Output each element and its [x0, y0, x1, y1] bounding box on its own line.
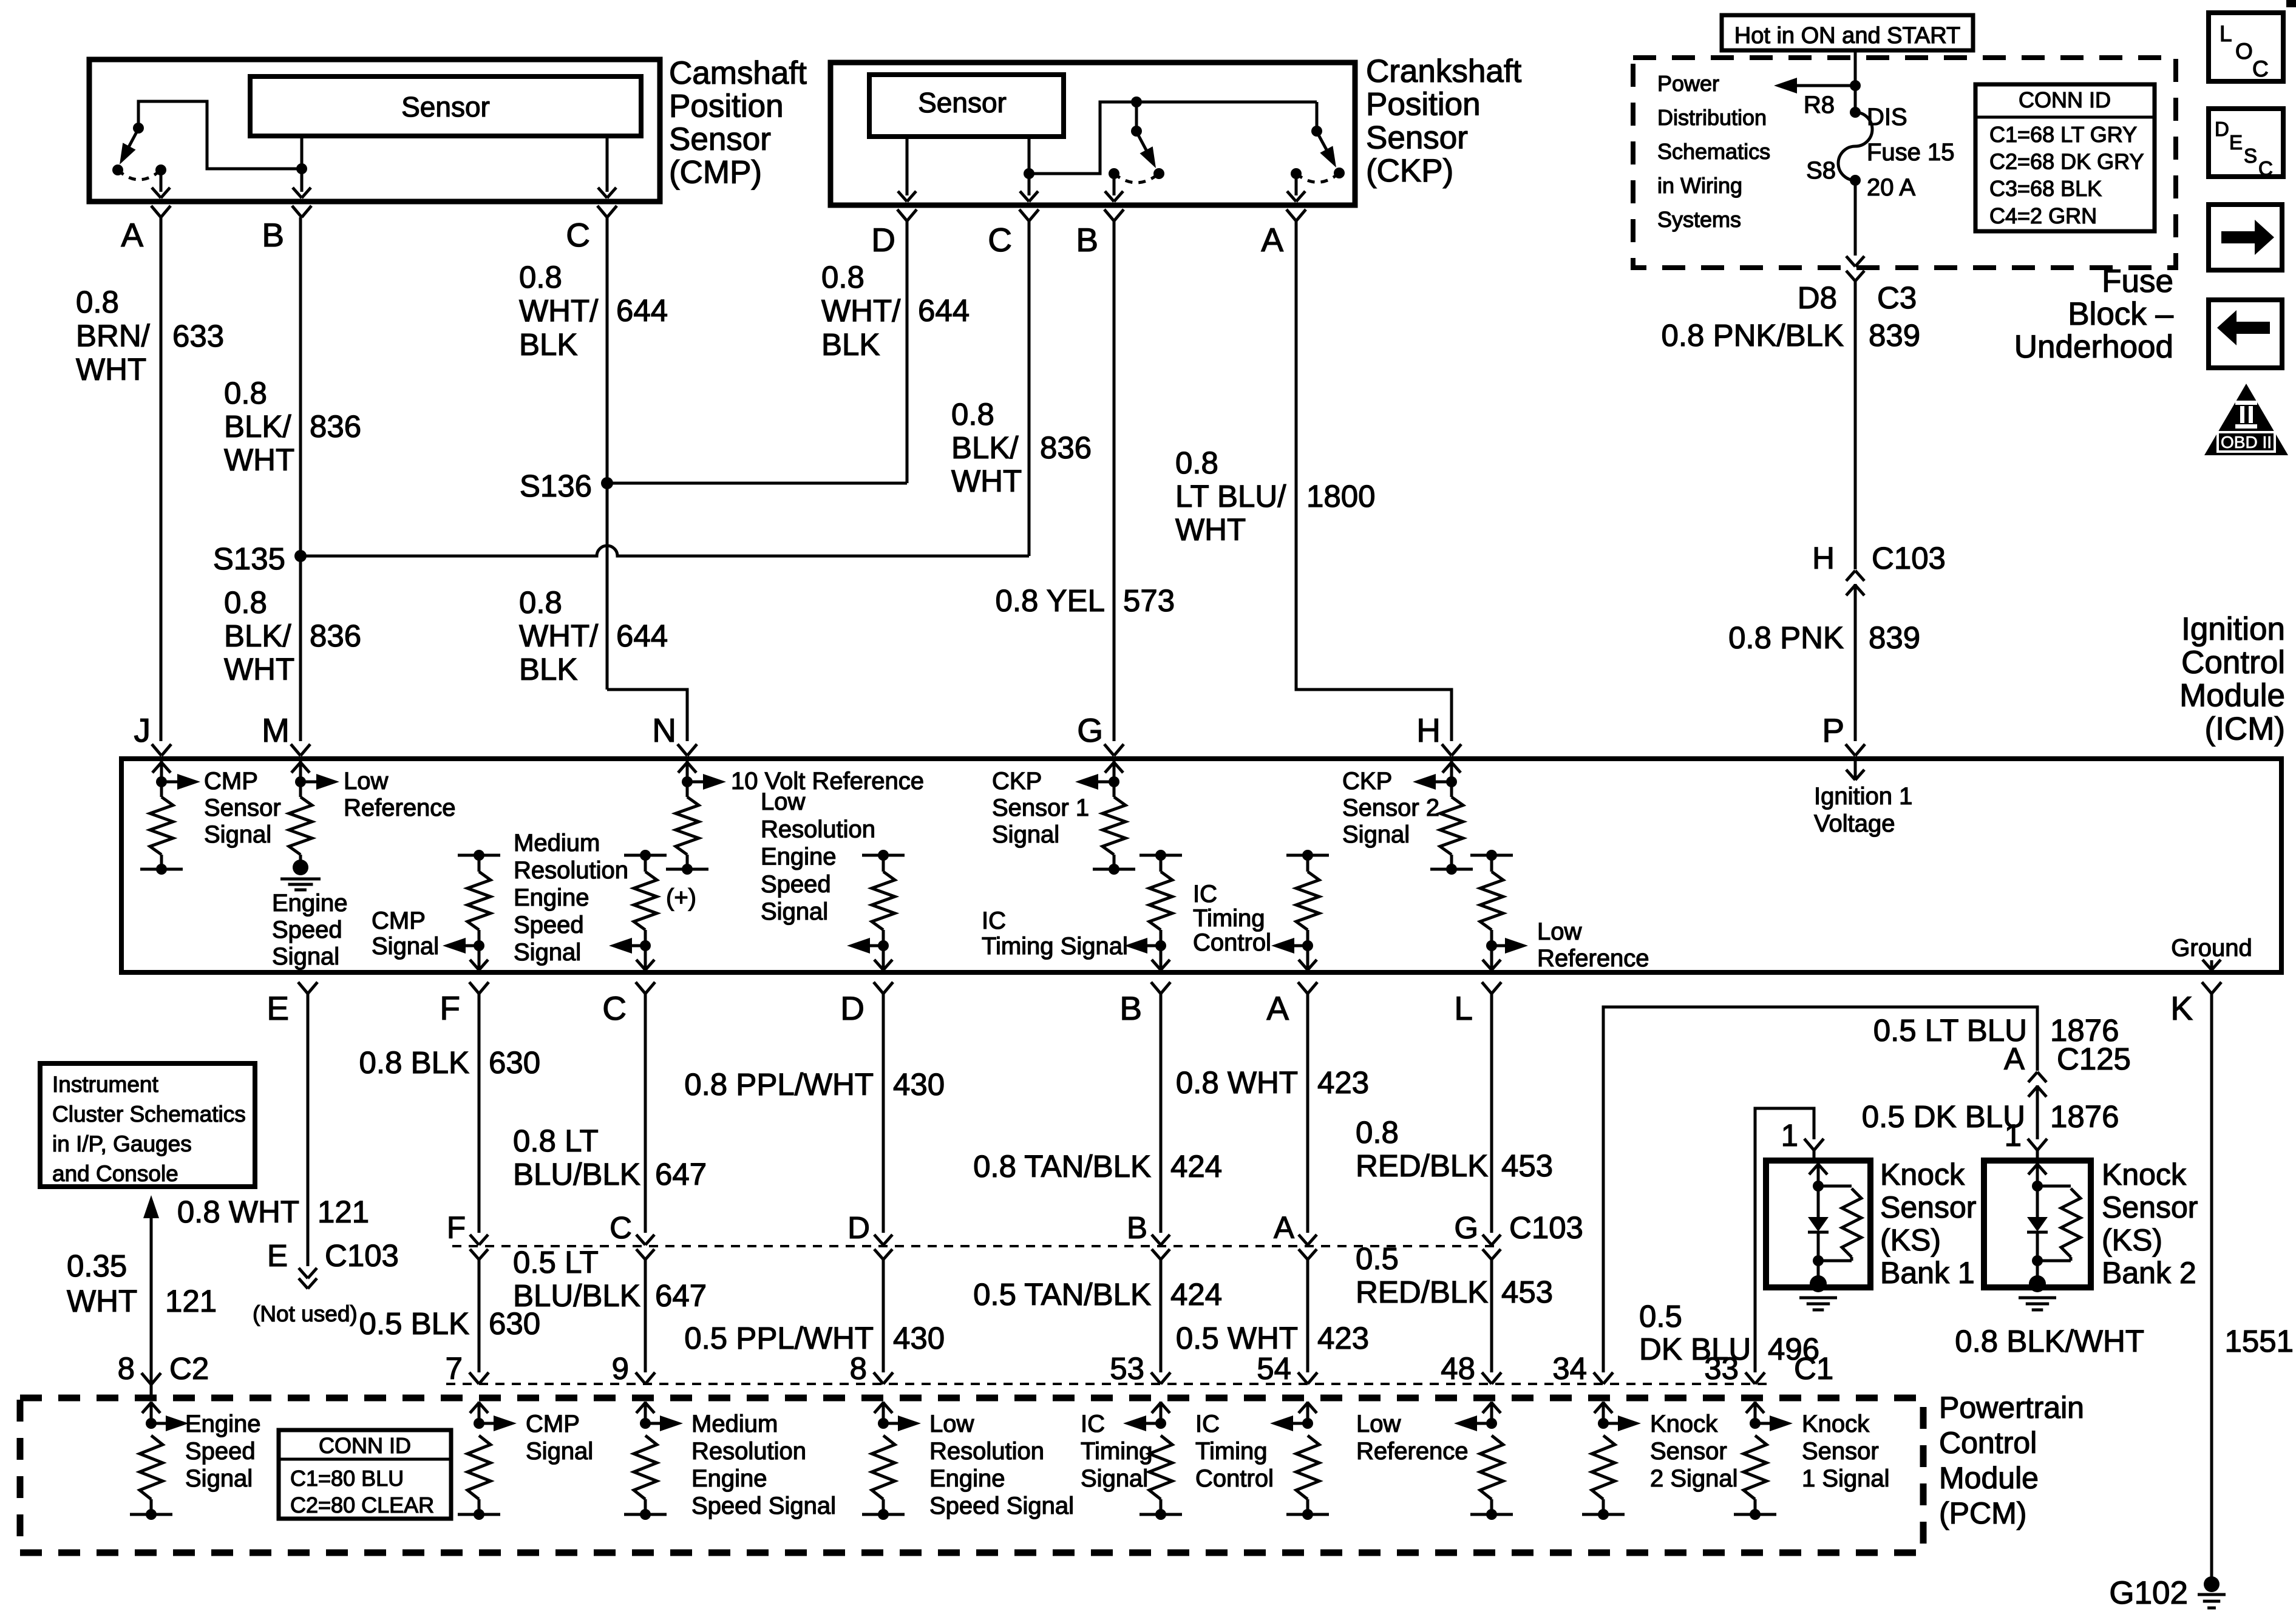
svg-text:Signal: Signal [1342, 821, 1410, 848]
wire CKP D down to S136 line [906, 221, 909, 483]
CKP pin B connector [1104, 209, 1114, 221]
svg-text:0.8: 0.8 [224, 376, 267, 410]
svg-text:630: 630 [489, 1045, 540, 1080]
svg-text:Control: Control [1193, 929, 1271, 956]
svg-text:0.8 PNK: 0.8 PNK [1728, 620, 1844, 655]
svg-text:Knock: Knock [1802, 1411, 1870, 1437]
svg-text:Sensor 2: Sensor 2 [1342, 795, 1439, 821]
svg-text:Low: Low [1356, 1411, 1401, 1437]
wire ICM F to C103 [478, 994, 481, 1233]
svg-text:647: 647 [655, 1278, 707, 1313]
ICM internal resistor top stub [1140, 854, 1182, 857]
wire ICM D to C103 [882, 994, 885, 1233]
svg-text:WHT: WHT [67, 1284, 137, 1318]
CMP pin C connector [597, 206, 607, 217]
ICM internal node dot [156, 776, 167, 787]
svg-text:644: 644 [616, 293, 668, 328]
wire C103 to PCM pin 8 [882, 1259, 885, 1372]
svg-text:C: C [2252, 56, 2269, 81]
svg-text:1800: 1800 [1306, 479, 1375, 514]
svg-text:WHT/: WHT/ [519, 619, 599, 653]
PCM pin 33 connector [1745, 1372, 1755, 1384]
svg-text:Speed: Speed [761, 871, 831, 898]
splice line S136 to CKP D [607, 482, 907, 485]
svg-text:Schematics: Schematics [1657, 139, 1770, 164]
svg-text:Signal: Signal [185, 1465, 253, 1492]
svg-text:430: 430 [893, 1067, 945, 1102]
svg-text:836: 836 [310, 409, 361, 444]
branch arrow to power distribution schematics [1797, 84, 1855, 87]
svg-text:S8: S8 [1806, 157, 1836, 184]
svg-text:S136: S136 [520, 469, 592, 503]
CKP pin D internal wire with arrow [906, 137, 909, 195]
svg-text:Sensor: Sensor [2102, 1190, 2198, 1224]
knock sensor bank 2 bottom node dot [2032, 1255, 2043, 1266]
svg-text:Sensor: Sensor [1650, 1438, 1727, 1465]
CKP switch 1 fixed contact dot (pin B) [1109, 168, 1119, 179]
ICM internal ground [293, 859, 308, 875]
svg-text:0.5: 0.5 [1356, 1241, 1399, 1276]
PCM node dot [146, 1418, 157, 1429]
svg-text:Speed: Speed [272, 917, 342, 943]
knock sensor bank 2 internal resistor [2037, 1185, 2071, 1188]
svg-text:0.8: 0.8 [1356, 1115, 1399, 1150]
svg-text:IC: IC [1081, 1411, 1105, 1437]
svg-text:Reference: Reference [344, 795, 456, 821]
ICM signal arrow right [301, 781, 325, 784]
svg-text:839: 839 [1869, 620, 1920, 655]
knock sensor bank 2 top node dot [2032, 1181, 2043, 1192]
PCM pin 8 connector [874, 1372, 883, 1384]
svg-text:Speed Signal: Speed Signal [691, 1493, 836, 1519]
svg-text:Control: Control [2181, 645, 2285, 680]
splice S136 dot [601, 477, 613, 489]
fuse DIS Fuse 15 20A symbol [1838, 112, 1872, 180]
svg-text:453: 453 [1501, 1148, 1553, 1183]
wire ICM A to C103 [1306, 994, 1309, 1233]
ICM internal resistor (bottom pin) [882, 855, 885, 872]
svg-text:0.5 WHT: 0.5 WHT [1176, 1321, 1298, 1355]
wire ICM K to G102, circuit 1551 [2210, 994, 2213, 1577]
svg-text:0.8: 0.8 [519, 585, 562, 620]
ICM output arrow to bottom edge [1306, 946, 1309, 970]
svg-text:0.8: 0.8 [76, 285, 119, 319]
PCM resistor bottom stub [130, 1513, 172, 1516]
svg-text:633: 633 [172, 319, 224, 353]
wire CKP C down to S135 line [1028, 221, 1031, 556]
ICM internal node dot [1446, 776, 1457, 787]
ICM top pin P connector [1846, 744, 1855, 756]
svg-text:0.8: 0.8 [1175, 446, 1218, 480]
svg-text:C1=68 LT GRY: C1=68 LT GRY [1989, 122, 2137, 147]
svg-text:0.8: 0.8 [224, 585, 267, 620]
ICM bottom pin C connector [636, 982, 645, 994]
svg-text:Engine: Engine [185, 1411, 261, 1437]
svg-text:(CMP): (CMP) [669, 155, 762, 191]
svg-text:Signal: Signal [1081, 1465, 1148, 1492]
splice S135 dot [294, 550, 307, 562]
svg-text:Signal: Signal [204, 821, 271, 848]
svg-text:E: E [267, 989, 289, 1027]
svg-text:Sensor: Sensor [1880, 1190, 1976, 1224]
svg-text:0.8 TAN/BLK: 0.8 TAN/BLK [973, 1149, 1151, 1184]
svg-text:CKP: CKP [1342, 768, 1392, 795]
svg-text:A: A [1261, 221, 1283, 259]
svg-text:423: 423 [1317, 1321, 1369, 1355]
connector C103 D [874, 1235, 883, 1245]
svg-text:H: H [1812, 541, 1835, 575]
svg-text:839: 839 [1869, 318, 1920, 353]
svg-text:C1=80 BLU: C1=80 BLU [290, 1466, 404, 1491]
ICM bottom pin D connector [874, 982, 883, 994]
ICM internal resistor top stub [862, 854, 905, 857]
wire CMP B to S135 to ICM M, circuit 836 [299, 217, 302, 741]
svg-text:Engine: Engine [691, 1465, 767, 1492]
svg-text:0.5: 0.5 [1639, 1299, 1682, 1334]
CMP switch dashed travel arc [118, 170, 161, 180]
svg-text:S: S [2244, 144, 2257, 167]
svg-text:Systems: Systems [1657, 207, 1741, 232]
svg-text:Control: Control [1195, 1465, 1274, 1492]
svg-text:Signal: Signal [514, 939, 581, 966]
wire C103 to PCM pin 7 [478, 1259, 481, 1372]
wire PCM 34 to knock sensor bank 2 route [1603, 1007, 2037, 1372]
svg-text:D: D [2215, 118, 2229, 140]
connector C103 A [1299, 1235, 1308, 1245]
ICM bottom pin A connector [1298, 982, 1308, 994]
fuse terminal S8 dot [1850, 175, 1861, 186]
page corner mark [2286, 0, 2296, 7]
svg-text:Low: Low [929, 1411, 974, 1437]
fuse terminal R8 dot [1850, 107, 1861, 118]
svg-text:Position: Position [669, 89, 784, 124]
svg-text:7: 7 [446, 1351, 463, 1386]
svg-text:Speed Signal: Speed Signal [929, 1493, 1074, 1519]
svg-text:F: F [447, 1210, 466, 1245]
svg-text:Signal: Signal [526, 1438, 593, 1465]
svg-text:E: E [267, 1238, 288, 1273]
ICM signal arrow left (bottom pin) [1286, 944, 1308, 947]
PCM signal arrow left [1138, 1422, 1161, 1425]
svg-text:121: 121 [318, 1195, 369, 1229]
CKP switch 2 pivot dot [1311, 126, 1322, 137]
PCM resistor bottom stub [862, 1513, 905, 1516]
CMP pin A connector [151, 206, 161, 217]
Hot in ON and START box [1722, 15, 1973, 50]
PCM internal resistor [1149, 1436, 1172, 1499]
PCM pin 54 connector [1298, 1372, 1308, 1384]
svg-text:G: G [1077, 711, 1103, 749]
svg-text:Crankshaft: Crankshaft [1366, 53, 1522, 89]
CKP pin B internal wire with arrow [1113, 174, 1116, 195]
ICM internal node dot (bottom pin) [474, 940, 484, 951]
ICM signal arrow right [161, 781, 186, 784]
ICM internal input arrow [1450, 761, 1453, 782]
svg-text:0.35: 0.35 [67, 1249, 127, 1283]
ICM top pin G connector [1104, 744, 1114, 756]
CKP internal Sensor box [869, 75, 1064, 137]
PCM connector face dashed line [446, 1383, 1773, 1385]
svg-text:Ignition: Ignition [2181, 611, 2285, 647]
svg-text:B: B [1127, 1210, 1147, 1245]
svg-text:K: K [2170, 989, 2193, 1027]
svg-text:WHT: WHT [224, 442, 294, 477]
ICM output arrow to bottom edge [1490, 946, 1493, 970]
svg-text:Module: Module [2179, 678, 2285, 714]
svg-text:1: 1 [1781, 1118, 1798, 1153]
ICM signal arrow right (bottom pin) [1492, 944, 1513, 947]
ICM internal resistor [299, 782, 302, 797]
PCM input arrow [1306, 1402, 1309, 1423]
ICM K ground arrow [2210, 960, 2213, 970]
svg-text:in Wiring: in Wiring [1657, 173, 1742, 198]
svg-text:48: 48 [1441, 1351, 1475, 1386]
CMP switch wiring from pivot to sensor output node [138, 101, 302, 169]
PCM internal resistor [1592, 1436, 1615, 1499]
svg-text:Ground: Ground [2171, 935, 2252, 961]
svg-text:A: A [1274, 1210, 1294, 1245]
wire CKP A to ICM H, circuit 1800 [1296, 221, 1452, 741]
PCM resistor bottom stub [1470, 1513, 1513, 1516]
svg-text:Low: Low [1537, 918, 1581, 945]
svg-text:453: 453 [1501, 1275, 1553, 1309]
svg-text:B: B [1119, 989, 1142, 1027]
svg-text:Timing: Timing [1081, 1438, 1153, 1465]
ICM internal node dot (bottom pin) [1155, 940, 1166, 951]
ICM signal arrow left (bottom pin) [457, 944, 479, 947]
ICM bottom pin F connector [469, 982, 479, 994]
PCM internal resistor [1296, 1436, 1319, 1499]
PCM pin 9 connector [636, 1372, 645, 1384]
svg-text:Sensor: Sensor [204, 795, 281, 821]
svg-text:10 Volt Reference: 10 Volt Reference [731, 768, 924, 795]
PCM node dot [1598, 1418, 1609, 1429]
ICM internal input arrow [686, 761, 689, 782]
svg-text:BLU/BLK: BLU/BLK [513, 1157, 640, 1192]
connector A C125 [2028, 1072, 2037, 1082]
svg-text:S135: S135 [213, 541, 285, 576]
svg-text:1551: 1551 [2225, 1324, 2294, 1358]
CONN ID table box (fuse block) [1975, 84, 2155, 231]
svg-text:G102: G102 [2109, 1575, 2188, 1611]
ICM signal arrow right [687, 781, 712, 784]
ICM internal resistor [686, 782, 689, 797]
svg-text:424: 424 [1170, 1277, 1222, 1312]
svg-text:Low: Low [761, 788, 805, 815]
Powertrain Control Module dashed box [20, 1398, 1923, 1553]
svg-text:0.5 PPL/WHT: 0.5 PPL/WHT [684, 1321, 874, 1355]
svg-text:BLU/BLK: BLU/BLK [513, 1278, 640, 1313]
svg-text:C4=2 GRN: C4=2 GRN [1989, 203, 2097, 228]
ICM internal node dot (bottom pin) [1486, 940, 1497, 951]
svg-text:Control: Control [1939, 1426, 2037, 1460]
svg-text:Sensor 1: Sensor 1 [992, 795, 1089, 821]
svg-text:1 Signal: 1 Signal [1802, 1465, 1890, 1492]
svg-text:Sensor: Sensor [1366, 120, 1468, 155]
CKP switch 1 pivot stub [1135, 102, 1138, 131]
svg-text:WHT: WHT [76, 352, 146, 387]
svg-text:Voltage: Voltage [1814, 810, 1895, 837]
svg-text:WHT: WHT [224, 652, 294, 686]
ICM internal resistor top stub [624, 854, 667, 857]
svg-text:423: 423 [1317, 1065, 1369, 1100]
knock sensor bank 2 input arrow [2036, 1163, 2039, 1186]
svg-text:0.5 TAN/BLK: 0.5 TAN/BLK [973, 1277, 1151, 1312]
svg-text:0.5 BLK: 0.5 BLK [359, 1306, 469, 1341]
PCM internal resistor [1744, 1436, 1767, 1499]
svg-text:(+): (+) [666, 884, 696, 911]
ICM resistor bottom stub [666, 868, 708, 871]
CKP switch 2 arm with arrowhead [1317, 132, 1333, 161]
svg-text:Block –: Block – [2068, 296, 2173, 332]
CMP internal Sensor box [250, 76, 641, 136]
PCM signal arrow right [1755, 1422, 1778, 1425]
knock sensor bank 1 pin 1 connector [1804, 1139, 1814, 1150]
svg-text:Powertrain: Powertrain [1939, 1391, 2084, 1425]
svg-text:CMP: CMP [526, 1411, 580, 1437]
wire PCM 8 to instrument cluster with arrow [150, 1218, 153, 1398]
svg-text:G: G [1454, 1210, 1478, 1245]
ICM internal resistor [160, 782, 163, 797]
svg-text:0.8 BLK/WHT: 0.8 BLK/WHT [1955, 1324, 2144, 1358]
branch dot to power distribution [1850, 80, 1861, 91]
PCM internal resistor [1480, 1436, 1503, 1499]
ICM internal resistor top stub [458, 854, 500, 857]
svg-text:Bank 2: Bank 2 [2102, 1256, 2196, 1290]
svg-text:RED/BLK: RED/BLK [1356, 1275, 1488, 1309]
PCM input arrow [1602, 1402, 1605, 1423]
PCM pin 34 connector [1594, 1372, 1603, 1384]
svg-text:DIS: DIS [1867, 104, 1907, 131]
svg-text:H: H [1416, 711, 1441, 749]
svg-text:Sensor: Sensor [669, 121, 771, 157]
svg-text:E: E [2229, 131, 2243, 154]
svg-text:121: 121 [165, 1284, 217, 1318]
svg-text:D: D [847, 1210, 870, 1245]
svg-text:P: P [1822, 711, 1844, 749]
OBD II triangle icon [2204, 384, 2288, 455]
svg-text:34: 34 [1552, 1351, 1587, 1386]
ICM signal arrow left (bottom pin) [623, 944, 645, 947]
PCM node dot [1486, 1418, 1497, 1429]
CMP switch arm with arrowhead [123, 129, 138, 158]
svg-text:20 A: 20 A [1867, 174, 1915, 201]
svg-text:IC: IC [1195, 1411, 1220, 1437]
ICM internal input arrow [160, 761, 163, 782]
svg-text:CONN ID: CONN ID [2019, 87, 2111, 112]
ICM output arrow to bottom edge [1160, 946, 1163, 970]
svg-text:C2=80 CLEAR: C2=80 CLEAR [290, 1493, 434, 1517]
ICM top pin H connector [1442, 744, 1452, 756]
svg-text:Resolution: Resolution [514, 857, 628, 884]
svg-text:0.8 PNK/BLK: 0.8 PNK/BLK [1662, 318, 1844, 353]
ICM internal resistor (bottom pin) [1490, 855, 1493, 872]
svg-text:Timing Signal: Timing Signal [982, 933, 1128, 960]
svg-text:Hot in ON and START: Hot in ON and START [1734, 23, 1960, 49]
PCM resistor bottom stub [1140, 1513, 1182, 1516]
ICM top pin J connector [152, 744, 161, 756]
svg-text:D: D [840, 989, 864, 1027]
svg-text:Signal: Signal [761, 898, 828, 925]
CKP switch 2 dashed travel arc [1296, 173, 1339, 182]
ICM signal arrow left [1427, 781, 1452, 784]
svg-text:0.8 WHT: 0.8 WHT [1176, 1065, 1298, 1100]
svg-text:Resolution: Resolution [691, 1438, 806, 1465]
svg-text:2 Signal: 2 Signal [1650, 1465, 1738, 1492]
CKP switch 1 feed dot on link [1131, 97, 1142, 107]
svg-text:Signal: Signal [372, 933, 439, 960]
knock sensor bank 2 box [1984, 1161, 2091, 1287]
svg-text:C: C [566, 216, 590, 254]
svg-text:Engine: Engine [761, 844, 837, 870]
svg-text:Medium: Medium [514, 830, 600, 856]
svg-text:647: 647 [655, 1157, 707, 1192]
PCM input arrow [150, 1402, 153, 1423]
ICM output arrow to bottom edge [882, 946, 885, 970]
svg-text:B: B [1076, 221, 1098, 259]
ICM internal node dot (bottom pin) [1302, 940, 1313, 951]
ICM internal resistor [1450, 782, 1453, 797]
wire from hot feed to fuse [1854, 50, 1857, 112]
svg-text:D8: D8 [1798, 280, 1837, 315]
svg-text:Knock: Knock [1880, 1158, 1965, 1192]
ICM internal node dot (bottom pin) [640, 940, 651, 951]
svg-text:Signal: Signal [272, 943, 339, 970]
svg-text:BLK/: BLK/ [224, 409, 291, 444]
svg-text:Underhood: Underhood [2014, 329, 2173, 365]
ICM internal node dot (bottom pin) [878, 940, 889, 951]
wire C103 to PCM pin 48 [1490, 1259, 1493, 1372]
svg-text:IC: IC [982, 907, 1006, 934]
knock sensor bank 1 box [1766, 1161, 1870, 1287]
ICM output arrow to bottom edge [644, 946, 647, 970]
svg-text:LT BLU/: LT BLU/ [1175, 479, 1286, 514]
ICM top pin M connector [291, 744, 301, 756]
svg-text:in I/P, Gauges: in I/P, Gauges [52, 1131, 192, 1156]
ICM internal resistor (bottom pin) [1306, 855, 1309, 872]
ICM internal resistor (bottom pin) [478, 855, 481, 872]
CKP switch 1 moving contact dot [1153, 168, 1164, 179]
ICM P input arrow (Ignition 1 Voltage) [1854, 761, 1857, 780]
svg-text:Knock: Knock [1650, 1411, 1718, 1437]
svg-text:Ignition 1: Ignition 1 [1814, 783, 1912, 810]
CKP switch 2 fixed contact dot (pin A) [1291, 168, 1302, 179]
svg-text:Camshaft: Camshaft [669, 55, 807, 91]
svg-text:CONN ID: CONN ID [319, 1433, 411, 1458]
CKP switch 2 moving contact dot [1334, 168, 1345, 178]
svg-text:and Console: and Console [52, 1161, 178, 1186]
svg-text:C103: C103 [1872, 541, 1946, 575]
svg-text:54: 54 [1257, 1351, 1291, 1386]
svg-text:J: J [134, 711, 151, 749]
connector C103 C [636, 1235, 645, 1245]
svg-text:1876: 1876 [2050, 1099, 2119, 1134]
svg-text:0.8 WHT: 0.8 WHT [177, 1195, 299, 1229]
svg-text:WHT/: WHT/ [821, 294, 901, 328]
wire ICM C to C103 [644, 994, 647, 1233]
knock sensor bank 1 diode [1817, 1186, 1820, 1217]
knock sensor bank 1 input arrow [1817, 1163, 1820, 1186]
wire ICM B to C103 [1160, 994, 1163, 1233]
connector C103 G [1483, 1235, 1492, 1245]
svg-text:0.8: 0.8 [821, 260, 864, 294]
PCM node dot [1750, 1418, 1761, 1429]
svg-text:BRN/: BRN/ [76, 319, 151, 353]
ICM internal resistor (bottom pin) [644, 855, 647, 872]
knock sensor bank 1 case ground [1817, 1261, 1820, 1281]
ICM bottom pin B connector [1151, 982, 1161, 994]
knock sensor bank 2 diode [2036, 1186, 2039, 1217]
